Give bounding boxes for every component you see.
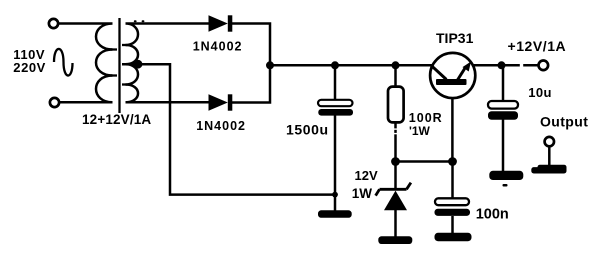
svg-text:220V: 220V (13, 60, 46, 75)
svg-text:1N4002: 1N4002 (193, 40, 243, 54)
svg-text:100R: 100R (409, 111, 443, 125)
svg-text:10u: 10u (528, 85, 551, 100)
svg-text:100n: 100n (476, 207, 509, 223)
svg-text:Output: Output (540, 114, 588, 130)
svg-text:1W: 1W (352, 186, 373, 201)
svg-text:1500u: 1500u (286, 122, 329, 138)
svg-text:12V: 12V (355, 168, 378, 183)
svg-text:1N4002: 1N4002 (196, 119, 246, 133)
svg-text:12+12V/1A: 12+12V/1A (82, 112, 151, 127)
svg-text:'1W: '1W (409, 124, 431, 138)
svg-text:TIP31: TIP31 (436, 30, 474, 46)
svg-text:+12V/1A: +12V/1A (508, 38, 567, 54)
